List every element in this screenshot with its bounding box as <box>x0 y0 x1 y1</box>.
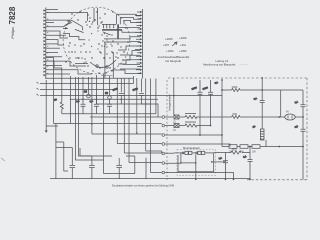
drum bottom arc <box>83 46 121 73</box>
fuse F1 <box>173 115 179 124</box>
right terminal strip <box>135 9 143 79</box>
capacitor C8 <box>294 125 305 131</box>
capacitor C7 <box>243 146 253 181</box>
svg-text:Drucktastenschalter von hinten: Drucktastenschalter von hinten gesehen b… <box>112 184 175 187</box>
capacitor C4 <box>202 80 213 126</box>
row1 harness <box>165 116 303 118</box>
cable boundary dashed <box>166 80 168 180</box>
svg-text:500: 500 <box>232 148 237 152</box>
svg-text:+4025: +4025 <box>165 37 173 41</box>
electrolytic A1 <box>84 90 90 98</box>
capacitor C3 <box>191 80 202 136</box>
bottom loop box <box>104 156 146 179</box>
pad drop wires <box>105 42 113 78</box>
row3 wire <box>165 134 222 136</box>
svg-text:Drucktasten: Drucktasten <box>101 74 113 77</box>
electrolytic C5 striped <box>252 125 264 140</box>
title Philips 7928 <box>8 6 17 39</box>
svg-text:+261: +261 <box>180 43 187 47</box>
row7 wire <box>165 173 235 181</box>
diagonal wires in drum <box>71 20 82 30</box>
capacitor C2 <box>132 87 150 104</box>
svg-text:Motorlaufwerk: Motorlaufwerk <box>183 146 201 150</box>
wire vertical 280.7 <box>280 90 282 117</box>
resistor R6 vertical <box>54 84 63 114</box>
svg-text:Philips: Philips <box>10 27 15 39</box>
drum apex verticals <box>94 8 98 25</box>
capacitor C13 <box>89 99 99 114</box>
horizontal buses lower left <box>37 82 223 173</box>
svg-text:7828: 7828 <box>8 6 17 24</box>
svg-text:+257: +257 <box>163 43 170 47</box>
row4 wire <box>165 144 230 147</box>
resistor R5 <box>214 148 250 155</box>
capacitor C1 <box>112 87 123 104</box>
wire bundle left comb to drum <box>46 10 134 85</box>
svg-text:Anschlussdose(Blaupunkt): Anschlussdose(Blaupunkt) <box>158 55 190 59</box>
wire vertical at 173.8 <box>173 78 175 115</box>
switch contact bank right <box>102 24 125 44</box>
svg-text:+4026: +4026 <box>179 36 187 40</box>
motor winding M2 <box>198 151 214 154</box>
svg-text:+1254: +1254 <box>166 49 174 53</box>
set border dashed right <box>306 78 308 180</box>
drum position dot ring <box>88 30 107 49</box>
capacitor C6 <box>218 153 228 181</box>
svg-text:.............: ............. <box>239 63 249 66</box>
wire bundle drum to right comb <box>112 14 140 73</box>
svg-text:Abschirmung von Blaupunkt: Abschirmung von Blaupunkt <box>203 62 236 66</box>
svg-text:1000: 1000 <box>232 85 238 89</box>
capacitor C14 <box>107 99 112 114</box>
note text right <box>203 59 249 66</box>
lower left verticals <box>56 124 68 179</box>
electrolytic A2 <box>105 91 111 99</box>
wire under dots <box>75 63 88 65</box>
motor winding M1 <box>174 151 198 154</box>
node vertical 262 <box>253 77 264 128</box>
terminal circles to set <box>162 116 165 174</box>
wire vertical 303 <box>302 90 304 180</box>
capacitor C12 <box>76 99 86 114</box>
bottom rail <box>50 178 250 180</box>
wire row y90 <box>222 89 303 91</box>
left terminal strip <box>44 8 49 80</box>
resistors row boxes <box>222 140 304 154</box>
set border dashed top <box>168 77 307 79</box>
resistor R4 <box>185 122 197 127</box>
comb tail wire with arrow <box>45 80 58 133</box>
svg-text:bei Neugerät: bei Neugerät <box>166 59 182 63</box>
lamp L1 <box>285 111 295 121</box>
legend text block <box>158 36 190 63</box>
drum dot clusters <box>65 17 113 62</box>
capacitor C9 <box>56 148 75 179</box>
svg-text:Anlagenkabel: Anlagenkabel <box>168 94 172 111</box>
motor loop wires <box>165 153 223 180</box>
capacitor C8a <box>294 100 305 107</box>
row2 harness <box>165 125 211 127</box>
legend pointer <box>172 42 177 46</box>
svg-text:500: 500 <box>233 112 238 116</box>
page mark <box>1 158 5 161</box>
motor unit dashed box <box>177 146 216 176</box>
node at 222,80 <box>214 79 223 146</box>
resistor R1 <box>232 85 240 91</box>
switch contact bank left <box>63 21 93 40</box>
svg-text:+1252: +1252 <box>179 49 187 53</box>
switch drum dashed circle <box>63 7 130 74</box>
capacitor C10 <box>80 148 95 179</box>
capacitor C11 <box>116 158 122 179</box>
set border dashed bottom <box>247 179 307 181</box>
svg-text:6V: 6V <box>286 111 289 114</box>
resistor R2 <box>185 114 197 119</box>
drum exit wires downward <box>54 74 156 173</box>
bus y99 <box>70 99 158 101</box>
contact dots inside drum <box>65 11 128 68</box>
fuse F2 <box>173 124 179 133</box>
long verticals 75.5 78.5 <box>76 77 104 160</box>
resistor R3 <box>232 112 240 118</box>
contact pads <box>78 52 116 59</box>
